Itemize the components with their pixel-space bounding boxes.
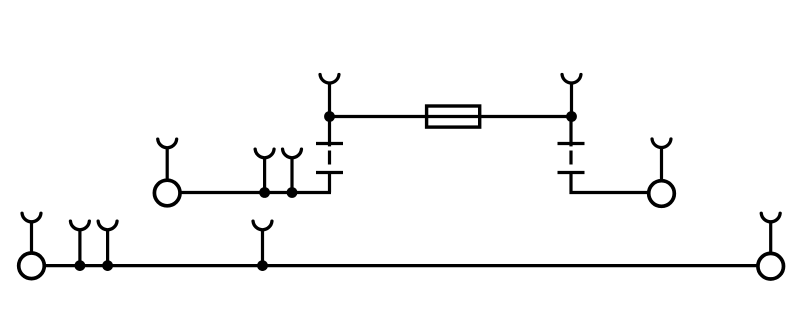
clamp terminal above middle-right screw	[652, 139, 671, 182]
junction node G	[257, 260, 268, 271]
clamp terminal 3.1 (bottom rail)	[70, 221, 89, 265]
screw terminal circle (bottom left)	[19, 253, 45, 279]
junction node F	[102, 260, 113, 271]
wire bottom rail	[45, 264, 757, 267]
wire right disconnect lower lead	[571, 173, 649, 193]
clamp terminal 1.1 (top left)	[320, 75, 339, 117]
screw terminal circle (middle right)	[649, 181, 675, 207]
screw terminal circle (bottom right)	[758, 253, 784, 279]
wire top rail left segment	[330, 115, 426, 118]
fuse F1	[427, 106, 480, 127]
clamp terminal above bottom-right screw	[761, 213, 780, 253]
wire top rail right segment	[481, 115, 572, 118]
wire left disconnect upper lead	[328, 117, 331, 147]
wire middle rail	[180, 191, 331, 194]
wire right disconnect upper lead	[569, 117, 572, 147]
disconnect point left (isolating gap)	[316, 144, 343, 173]
junction node B	[566, 111, 577, 122]
junction node C	[259, 187, 270, 198]
clamp terminal above bottom-left screw	[22, 213, 41, 253]
wire left disconnect lower lead	[328, 173, 331, 193]
clamp terminal above middle-left screw	[158, 139, 177, 181]
wire through fuse	[425, 115, 481, 118]
clamp terminal 3.3 (bottom rail)	[253, 221, 272, 265]
screw terminal circle (middle left)	[154, 180, 180, 206]
junction node A	[324, 111, 335, 122]
clamp terminal 2.1 (top right)	[562, 75, 581, 117]
disconnect point right (isolating gap)	[558, 144, 585, 173]
junction node E	[75, 260, 86, 271]
clamp terminal 3.2 (bottom rail)	[98, 221, 117, 265]
clamp terminal 1.3 (middle rail)	[255, 149, 274, 192]
clamp terminal 1.4 (middle rail)	[283, 149, 302, 192]
junction node D	[287, 187, 298, 198]
